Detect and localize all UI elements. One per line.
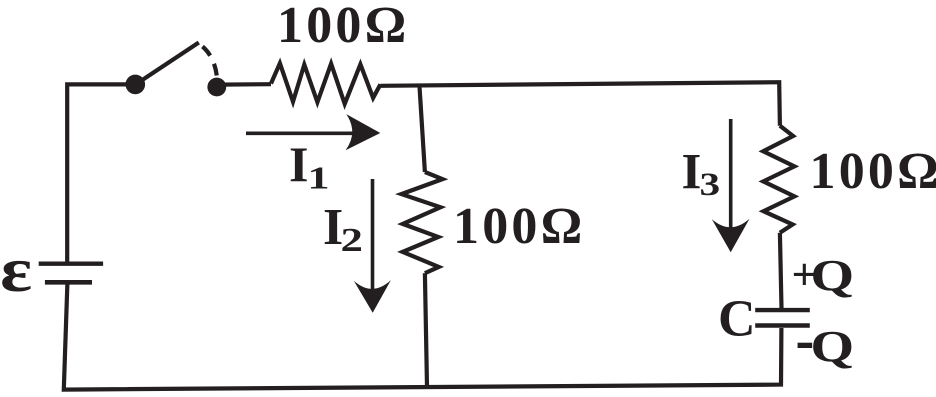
capacitor C plate bottom xyxy=(755,323,810,327)
arrow I2 shaft xyxy=(371,179,375,290)
arrow I1 shaft xyxy=(246,132,355,136)
switch dashed arc xyxy=(203,47,217,77)
svg-text:1: 1 xyxy=(308,161,330,196)
svg-text:ε: ε xyxy=(0,235,32,306)
arrow I2 head xyxy=(354,280,391,313)
switch arm xyxy=(140,43,199,82)
svg-text:100Ω: 100Ω xyxy=(810,143,936,200)
switch node dot left xyxy=(126,75,146,95)
resistor R1 100ohm top zigzag xyxy=(271,63,380,104)
wire top middle-right segment + right vertical top corner xyxy=(380,82,780,126)
svg-text:2: 2 xyxy=(341,221,363,259)
svg-text:100Ω: 100Ω xyxy=(453,198,585,255)
arrow I3 shaft xyxy=(729,119,733,228)
resistor R2 100ohm middle zigzag xyxy=(401,172,442,273)
svg-text:3: 3 xyxy=(700,167,721,203)
battery plate long (+) xyxy=(39,262,103,266)
switch node dot right xyxy=(207,78,226,97)
wire middle branch bottom (R2 to bottom wire) xyxy=(425,273,427,386)
wire left vertical top (battery + to top-left corner) xyxy=(67,84,137,263)
resistor R3 100ohm right zigzag xyxy=(763,126,794,233)
arrow I3 head xyxy=(712,219,750,253)
svg-text:Q: Q xyxy=(810,322,854,371)
svg-text:100Ω: 100Ω xyxy=(277,0,409,54)
wire R3 to capacitor xyxy=(780,233,782,308)
capacitor C plate top xyxy=(755,308,810,312)
svg-text:Q: Q xyxy=(810,251,854,300)
wire left vertical bottom, bottom wire, bottom-right riser to capacitor xyxy=(64,283,782,390)
wire middle branch top (node to R2) xyxy=(420,87,425,173)
arrow I1 head xyxy=(346,114,381,150)
svg-text:I: I xyxy=(682,144,702,200)
battery plate short (-) xyxy=(45,280,92,285)
svg-text:I: I xyxy=(289,136,308,192)
wire switch right dot to resistor R1 xyxy=(220,82,271,87)
svg-text:C: C xyxy=(718,291,756,348)
